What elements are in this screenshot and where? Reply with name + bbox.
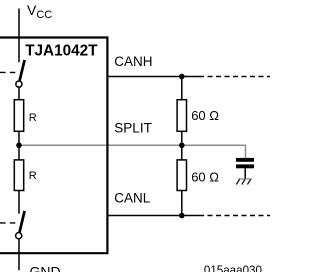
svg-text:60 Ω: 60 Ω xyxy=(191,108,219,123)
resistor R (upper internal divider resistor): body xyxy=(14,100,23,132)
wire: RT2 to CANL junction xyxy=(181,191,183,217)
switch S1: dashed control line xyxy=(0,71,15,73)
wire: lower R to switch S2 xyxy=(18,191,20,214)
net SPLIT: gray wire from internal divider junction to external capacitor xyxy=(19,145,246,158)
net VCC: supply wire into IC xyxy=(18,9,20,63)
node: SPLIT termination junction xyxy=(179,142,185,148)
capacitor C1 (SPLIT decoupling): top plate xyxy=(236,158,254,162)
resistor RT1 (termination 60 Ohm): body xyxy=(177,100,186,132)
wire: upper R to SPLIT junction xyxy=(18,131,20,146)
svg-text:R: R xyxy=(29,170,37,182)
switch S2 (standby switch to GND): blade xyxy=(20,211,25,232)
wire: SPLIT junction to lower R xyxy=(18,145,20,161)
svg-text:TJA1042T: TJA1042T xyxy=(25,42,98,59)
ground symbol (chassis earth) xyxy=(236,179,251,185)
pin CANL: wire continuation to bus (dashed) xyxy=(208,215,271,217)
switch S2: dashed control line xyxy=(0,222,15,224)
switch S1: moving contact circle xyxy=(16,81,22,87)
switch S2: moving contact circle xyxy=(16,233,22,239)
svg-text:CANH: CANH xyxy=(114,54,152,69)
resistor RT2 (termination 60 Ohm): body xyxy=(177,160,186,191)
svg-text:R: R xyxy=(29,112,37,124)
pin CANH: wire (solid part) xyxy=(109,76,205,78)
svg-text:GND: GND xyxy=(30,264,61,272)
wire: RT1 to SPLIT termination junction xyxy=(181,131,183,161)
pin CANH: wire continuation to bus (dashed) xyxy=(208,76,271,78)
node: internal SPLIT divider junction xyxy=(16,142,22,148)
svg-text:015aaa030: 015aaa030 xyxy=(204,264,262,272)
svg-text:SPLIT: SPLIT xyxy=(114,120,152,135)
capacitor C1: bottom plate xyxy=(236,164,254,168)
wire: CANH junction to RT1 xyxy=(181,77,183,101)
net GND: wire from switch S2 through package bottom xyxy=(18,239,20,270)
pin CANL: wire (solid part) xyxy=(109,215,205,217)
IC TJA1042T: package outline (top, right, bottom borders; left side cropped) xyxy=(0,38,107,254)
wire: switch S1 to resistor R (upper) xyxy=(18,87,20,100)
wire: C1 to ground symbol xyxy=(244,168,246,178)
svg-text:CANL: CANL xyxy=(114,190,151,205)
switch S1 (standby switch to VCC): blade xyxy=(20,60,25,81)
node: CANL / termination junction xyxy=(179,213,185,219)
resistor R (lower internal divider resistor): body xyxy=(14,160,23,191)
node: CANH / termination junction xyxy=(179,74,185,80)
svg-text:60 Ω: 60 Ω xyxy=(191,169,219,184)
